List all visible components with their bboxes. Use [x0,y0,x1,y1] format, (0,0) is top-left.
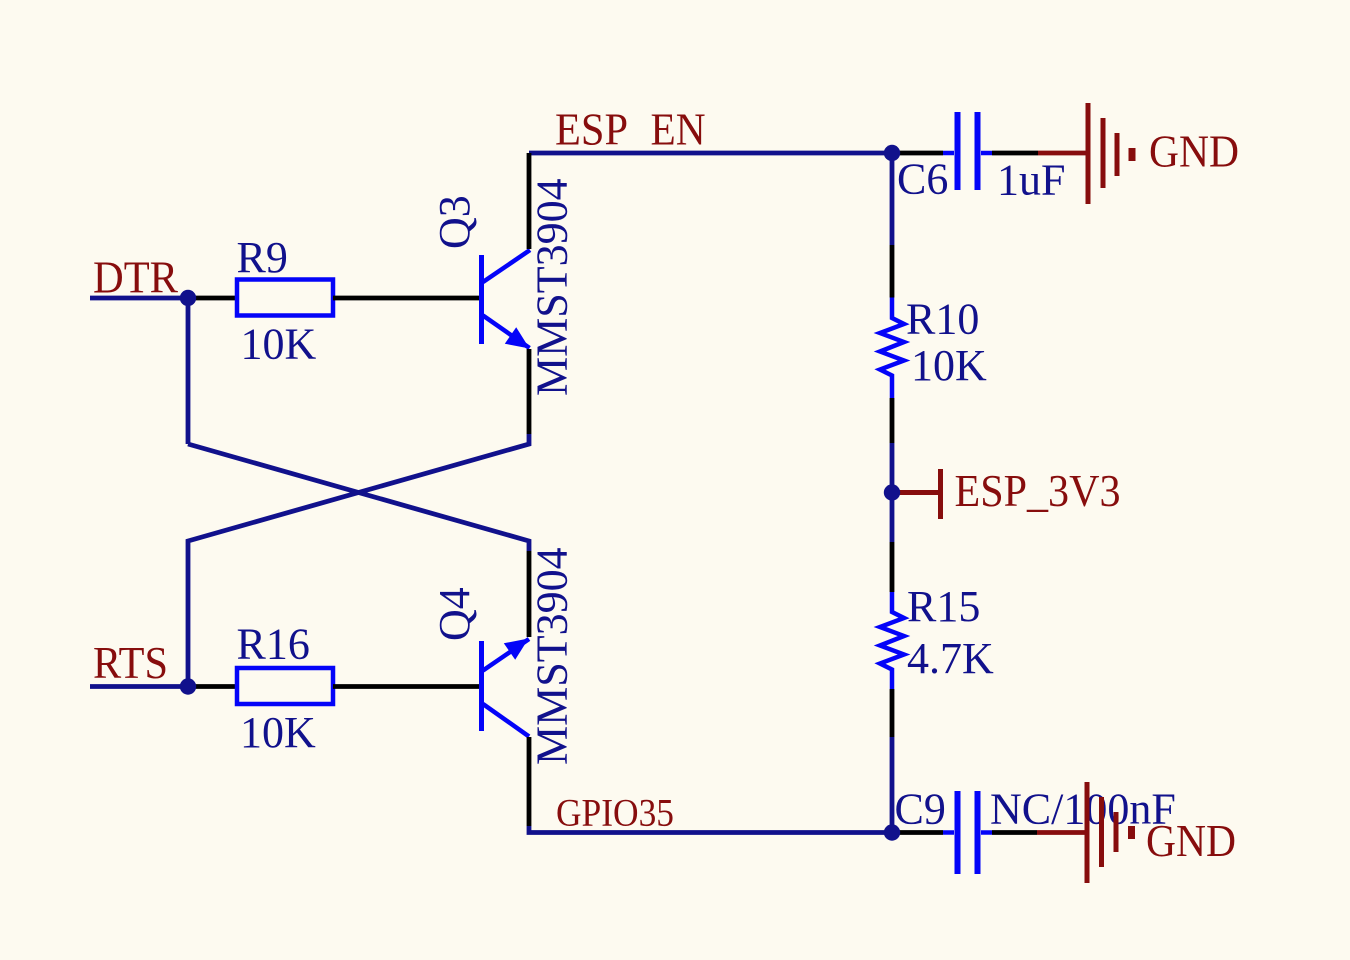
pin Q4 emitter (black) [527,551,532,637]
svg-text:Q3: Q3 [430,195,479,249]
ground symbol top [1088,103,1132,204]
transistor Q3 MMST3904 [482,250,531,349]
svg-text:10K: 10K [241,320,317,369]
svg-text:GND: GND [1146,815,1236,866]
pin C6 left (black) [892,151,943,156]
node junction ESP_EN/C6 [884,145,900,161]
ground symbol bottom [1087,782,1132,883]
resistor R16 [237,668,333,704]
svg-text:MMST3904: MMST3904 [528,178,577,396]
wire X diagonal Q3 to RTS [188,444,529,551]
pin C9 left (black) [892,830,943,835]
wire left vertical DTR to X [186,298,191,444]
svg-text:R10: R10 [906,295,979,344]
svg-text:1uF: 1uF [997,156,1065,205]
svg-text:C6: C6 [897,155,948,204]
svg-text:ESP_3V3: ESP_3V3 [955,465,1121,516]
svg-text:EN: EN [651,104,706,155]
resistor R15 zigzag [880,592,904,689]
svg-text:GPIO35: GPIO35 [556,792,674,835]
svg-text:10K: 10K [240,708,316,757]
svg-text:C9: C9 [895,785,946,834]
svg-text:DTR: DTR [93,252,178,303]
svg-text:Q4: Q4 [430,587,479,641]
wire RTS junction to R16 (black) [188,684,238,689]
node junction ESP_3V3 [884,484,900,500]
wire trunk navy bottom [890,737,895,833]
pin C9 right (black) [992,830,1037,835]
node junction DTR [180,290,196,306]
wire ESP_EN top rail [529,151,892,156]
pin Q3 collector (black) [527,153,532,249]
pin R15 bottom (black) [890,689,895,737]
capacitor C6 [943,112,992,190]
wire trunk navy top [890,153,895,245]
node junction GPIO35/C9 [884,824,900,840]
pin GND top (dark red) [1038,151,1086,156]
svg-text:ESP: ESP [555,104,628,155]
wire RTS horizontal [90,684,188,689]
pin R15 top (black) [890,542,895,592]
svg-text:10K: 10K [911,341,987,390]
pin C6 right (black) [992,151,1038,156]
node junction RTS [180,678,196,694]
wire Q4 to GPIO35 rail corner [529,826,892,833]
transistor Q4 MMST3904 [482,639,530,737]
svg-text:RTS: RTS [93,637,168,688]
wire R9 to Q3 base (black) [333,296,479,301]
wire R16 to Q4 base (black) [333,684,479,689]
svg-text:R9: R9 [237,233,288,282]
svg-text:R16: R16 [237,620,310,669]
resistor R10 zigzag [880,298,904,399]
capacitor C9 [943,791,992,874]
wire DTR horizontal [90,296,188,301]
svg-text:R15: R15 [907,582,980,631]
pin R10 bottom (black) [890,398,895,443]
wire X diagonal DTR to Q4 [188,434,529,687]
pin R10 top (black) [890,245,895,298]
wire trunk navy middle [890,443,895,542]
resistor R9 [237,280,333,316]
svg-text:4.7K: 4.7K [907,634,994,683]
wire DTR junction to R9 (black pin run) [188,296,238,301]
pin Q3 emitter (black) [527,349,532,434]
power flag ESP_3V3 [892,469,941,519]
svg-text:GND: GND [1149,126,1239,177]
pin GND bottom (dark red) [1037,830,1085,835]
pin Q4 collector (black) [527,737,532,826]
svg-text:MMST3904: MMST3904 [528,547,577,765]
